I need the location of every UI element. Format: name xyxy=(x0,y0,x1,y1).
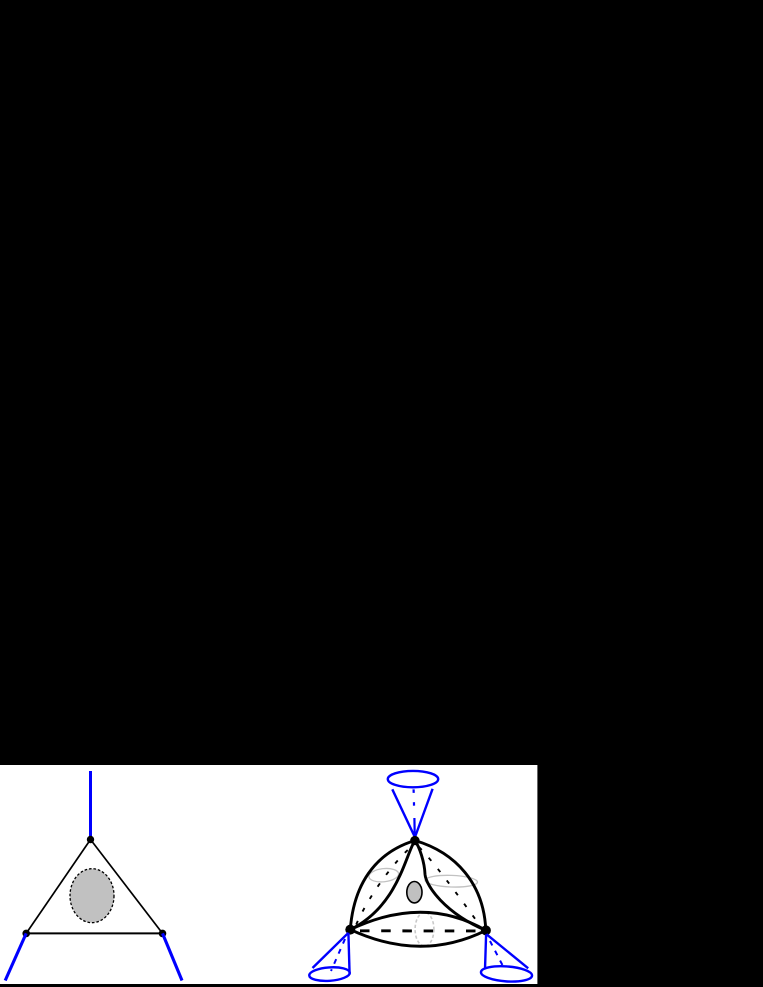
wire: triangle right side xyxy=(91,840,163,934)
bottom-left cone dashed axis xyxy=(331,939,345,971)
bottom-right cone right side xyxy=(486,934,528,968)
tube boundary: inner-right arc xyxy=(415,841,486,931)
right tube cross-section ellipse xyxy=(425,874,478,887)
bottom tube dashed axis xyxy=(352,929,484,932)
node: triangle apex xyxy=(87,836,94,843)
white figure panel xyxy=(0,765,537,984)
central shaded disc xyxy=(407,882,422,903)
top cone axis solid tip xyxy=(413,818,416,835)
node: triangle bottom-left xyxy=(22,930,30,938)
wire: triangle bottom side xyxy=(26,932,162,934)
bottom-right cone left side xyxy=(485,934,486,969)
shaded disc inside triangle xyxy=(70,869,114,923)
right tube dashed axis xyxy=(419,847,481,927)
tube boundary: bottom upper arc xyxy=(350,912,486,930)
node: bottom-left vertex xyxy=(345,925,355,935)
top cone left side xyxy=(392,789,414,836)
tube boundary: outer-right arc xyxy=(415,841,486,931)
top cone rim ellipse xyxy=(388,771,438,787)
bottom-right cone dashed axis xyxy=(490,941,505,970)
node: top vertex xyxy=(410,836,419,845)
tube boundary: outer-left arc xyxy=(350,841,415,930)
node: triangle bottom-right xyxy=(159,930,167,938)
bottom-right cone rim ellipse xyxy=(480,965,532,984)
node: bottom-right vertex xyxy=(481,925,491,935)
tube boundary: bottom lower arc xyxy=(350,930,486,947)
bottom-left cone rim ellipse xyxy=(309,966,350,982)
top cone right side xyxy=(415,789,432,837)
left tube dashed axis xyxy=(356,847,411,925)
left tube cross-section ellipse xyxy=(368,867,399,883)
bottom tube cross-section ellipse xyxy=(415,913,434,947)
tube boundary: inner-left arc xyxy=(350,841,415,930)
wire: triangle left side xyxy=(26,840,90,934)
top cone dashed axis xyxy=(413,789,416,812)
wire: bottom-left external blue edge xyxy=(5,933,26,980)
wire: bottom-right external blue edge xyxy=(163,933,183,980)
bottom-left cone left side xyxy=(313,933,349,968)
wire: top external blue edge xyxy=(89,771,92,840)
bottom-left cone right side xyxy=(348,933,349,974)
